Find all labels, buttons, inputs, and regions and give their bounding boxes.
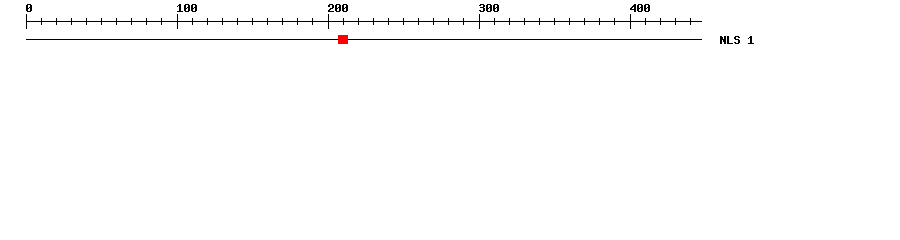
minor tick 40 <box>86 18 87 25</box>
scale label 0 <box>26 4 32 12</box>
minor tick 230 <box>373 18 374 25</box>
domain box NLS 1 (red) <box>338 35 348 44</box>
minor tick 30 <box>71 18 72 25</box>
minor tick 240 <box>388 18 389 25</box>
minor tick 390 <box>614 18 615 25</box>
minor tick 260 <box>418 18 419 25</box>
background <box>0 0 900 58</box>
minor tick 130 <box>222 18 223 25</box>
minor tick 430 <box>675 18 676 25</box>
minor tick 380 <box>599 18 600 25</box>
minor tick 190 <box>312 18 313 25</box>
minor tick 420 <box>660 18 661 25</box>
minor tick 280 <box>448 18 449 25</box>
minor tick 180 <box>297 18 298 25</box>
minor tick 60 <box>116 18 117 25</box>
major tick 200 <box>328 14 329 29</box>
minor tick 120 <box>207 18 208 25</box>
minor tick 290 <box>463 18 464 25</box>
minor tick 410 <box>645 18 646 25</box>
minor tick 220 <box>358 18 359 25</box>
scale label 200 <box>328 4 348 12</box>
minor tick 70 <box>131 18 132 25</box>
minor tick 150 <box>252 18 253 25</box>
minor tick 360 <box>569 18 570 25</box>
ruler axis line <box>26 21 702 22</box>
feature label NLS 1 <box>720 36 754 44</box>
minor tick 370 <box>584 18 585 25</box>
minor tick 210 <box>343 18 344 25</box>
scale label 100 <box>177 4 197 12</box>
minor tick 110 <box>192 18 193 25</box>
scale label 300 <box>479 4 499 12</box>
minor tick 160 <box>267 18 268 25</box>
minor tick 90 <box>161 18 162 25</box>
scale label 400 <box>630 4 650 12</box>
minor tick 170 <box>282 18 283 25</box>
sequence line <box>26 39 702 40</box>
minor tick 10 <box>41 18 42 25</box>
minor tick 320 <box>509 18 510 25</box>
minor tick 350 <box>554 18 555 25</box>
minor tick 250 <box>403 18 404 25</box>
minor tick 140 <box>237 18 238 25</box>
minor tick 20 <box>56 18 57 25</box>
minor tick 50 <box>101 18 102 25</box>
major tick 300 <box>479 14 480 29</box>
minor tick 270 <box>433 18 434 25</box>
major tick 100 <box>177 14 178 29</box>
major tick 400 <box>630 14 631 29</box>
minor tick 310 <box>494 18 495 25</box>
minor tick 340 <box>539 18 540 25</box>
minor tick 330 <box>524 18 525 25</box>
minor tick 440 <box>690 18 691 25</box>
minor tick 80 <box>146 18 147 25</box>
major tick 0 <box>26 14 27 29</box>
